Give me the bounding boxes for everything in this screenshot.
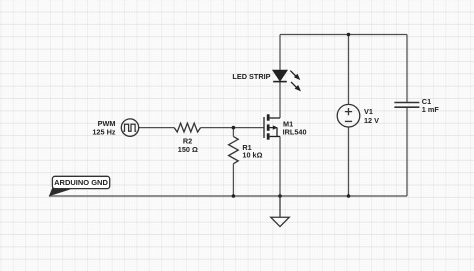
wire MOSFET source to ground rail [279, 137, 281, 197]
transistor M1 body arrow head [273, 125, 278, 129]
capacitor C1 top plate [394, 102, 419, 104]
wire bottom ground rail [49, 195, 407, 197]
transistor M1 body line [270, 128, 277, 137]
svg-text:12 V: 12 V [364, 116, 379, 125]
node MOSFET source / ground junction dot [278, 194, 282, 198]
svg-text:125 Hz: 125 Hz [92, 128, 115, 137]
resistor R2 [174, 123, 200, 132]
wire C1 branch top [406, 35, 408, 103]
svg-text:IRL540: IRL540 [283, 128, 307, 137]
svg-text:10 kΩ: 10 kΩ [242, 151, 262, 160]
ground symbol [271, 196, 290, 227]
wire gate node to R1 top [232, 128, 234, 137]
wire PWM source to R2 [139, 127, 175, 129]
transistor M1 channel bottom segment [267, 133, 270, 139]
wire V1 branch top [348, 35, 350, 105]
V1 minus sign [345, 120, 352, 122]
voltage source V1 circle [337, 104, 360, 127]
ARDUINO GND net flag tail [49, 188, 71, 197]
resistor R1 [229, 137, 239, 164]
wire LED cathode to MOSFET drain [279, 82, 281, 118]
wire R2 to gate node [201, 127, 234, 129]
wire gate node to MOSFET gate [233, 127, 263, 129]
capacitor C1 bottom plate [394, 106, 419, 108]
svg-text:V1: V1 [364, 107, 373, 116]
transistor M1 channel middle segment [267, 124, 270, 130]
wire V1 branch bottom [348, 127, 350, 196]
LED emission arrow 2 [291, 82, 297, 88]
LED D1 triangle [273, 70, 287, 81]
transistor M1 source stub [270, 136, 280, 138]
PWM source circle [121, 119, 138, 136]
svg-text:150 Ω: 150 Ω [178, 145, 198, 154]
svg-text:1 mF: 1 mF [422, 105, 440, 114]
V1 plus sign [345, 108, 352, 115]
PWM source square-wave glyph [123, 124, 136, 131]
svg-text:ARDUINO GND: ARDUINO GND [54, 178, 108, 187]
node R1 bottom junction dot [232, 194, 236, 198]
transistor M1 drain stub [270, 117, 280, 119]
wire LED branch top [279, 35, 281, 71]
node V1 bottom junction dot [347, 194, 351, 198]
transistor M1 channel top segment [267, 114, 270, 120]
node A gate junction dot [232, 126, 236, 130]
wire top supply rail [280, 34, 407, 36]
LED emission arrow 1 [290, 71, 296, 77]
ARDUINO GND net flag box [52, 176, 109, 188]
transistor M1 gate bar [263, 117, 265, 138]
svg-text:LED STRIP: LED STRIP [232, 72, 270, 81]
LED cathode bar [273, 81, 287, 83]
wire C1 branch bottom [406, 107, 408, 196]
wire R1 bottom to ground rail [232, 164, 234, 196]
node V1 top junction dot [347, 33, 351, 37]
